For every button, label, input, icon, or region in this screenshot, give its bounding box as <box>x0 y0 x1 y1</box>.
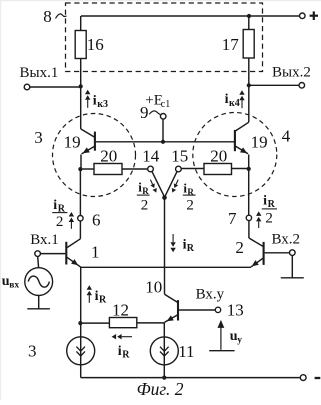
svg-text:с1: с1 <box>161 99 170 110</box>
resistor 20 right <box>204 164 232 175</box>
transistor 10 emitter <box>165 315 178 322</box>
wire Vkh.1 to AC source <box>37 256 40 268</box>
current arrow iR through R12 <box>122 336 132 338</box>
svg-text:R: R <box>99 294 107 305</box>
junction dot emitter 19 left / R20 left <box>78 167 82 171</box>
junction dot emitter 19 right / R20 right <box>247 167 251 171</box>
svg-text:вх: вх <box>9 280 19 290</box>
svg-text:i: i <box>95 289 99 304</box>
svg-text:Вых.2: Вых.2 <box>272 65 311 81</box>
junction dot R12 left <box>78 321 82 325</box>
node 6 terminal <box>78 216 83 221</box>
wire emitter19L to node 6 <box>79 169 81 216</box>
negative supply rail (bottom wire) <box>81 377 301 379</box>
terminal - (minus supply) <box>300 375 306 381</box>
base rail between transistors <box>96 141 235 143</box>
positive supply rail (top wire) <box>81 15 300 17</box>
svg-text:20: 20 <box>100 147 117 166</box>
resistor 17 <box>243 30 254 59</box>
transistor 2 base bar <box>263 242 265 265</box>
transistor 1 collector wire <box>67 239 80 248</box>
dashed block 8 boundary <box>66 3 263 72</box>
svg-text:2: 2 <box>56 214 64 230</box>
svg-text:7: 7 <box>228 209 237 228</box>
svg-text:2: 2 <box>141 197 149 213</box>
ground at Vkh.2 <box>291 255 293 277</box>
current source 3 <box>67 337 95 365</box>
label u_y with arrow <box>218 320 225 328</box>
svg-text:14: 14 <box>142 147 160 166</box>
transistor 19 left base bar <box>94 132 96 151</box>
svg-text:у: у <box>237 336 242 346</box>
node 15 terminal <box>176 166 182 172</box>
transistor 19 right base bar <box>234 130 236 151</box>
current arrow iR rising <box>88 295 90 303</box>
svg-text:13: 13 <box>227 301 244 320</box>
svg-text:2: 2 <box>235 238 244 257</box>
svg-text:2: 2 <box>186 197 194 213</box>
node 7 terminal <box>246 215 251 220</box>
svg-text:Вх.1: Вх.1 <box>30 232 59 248</box>
svg-text:19: 19 <box>64 133 81 152</box>
svg-text:i: i <box>263 194 267 209</box>
svg-text:1: 1 <box>91 243 100 262</box>
wire node14 to center junction <box>152 172 165 198</box>
svg-text:Вых.1: Вых.1 <box>20 65 59 81</box>
svg-text:Фиг. 2: Фиг. 2 <box>137 379 184 399</box>
svg-text:16: 16 <box>87 35 104 54</box>
current arrow iR/2 into V left <box>150 180 152 185</box>
current arrow i_k3 <box>87 100 89 108</box>
svg-text:3: 3 <box>34 128 43 147</box>
svg-text:i: i <box>118 344 122 359</box>
wire node 7 to transistor 2 <box>248 221 250 238</box>
svg-text:19: 19 <box>251 133 268 152</box>
dashed circle composite transistor 3 <box>53 114 136 197</box>
transistor 19 left collector wire <box>80 85 82 129</box>
wire node 6 to transistor 1 <box>79 221 81 239</box>
wire AC source to ground <box>38 296 40 309</box>
wire emitter 10 down <box>163 322 165 377</box>
junction dot node Vykh.1 <box>79 84 83 88</box>
transistor 19 right collector wire <box>248 85 250 122</box>
junction dot node Vykh.2 <box>247 83 251 87</box>
emitter rail <box>81 266 251 268</box>
transistor 2 emitter <box>251 258 263 267</box>
current source 11 <box>150 337 178 365</box>
node 14 terminal <box>148 166 154 172</box>
svg-text:8: 8 <box>43 7 52 26</box>
label iR/2 at node 7 <box>258 221 260 228</box>
svg-text:4: 4 <box>282 127 291 146</box>
svg-text:20: 20 <box>210 146 227 165</box>
current arrow iR/2 into V right <box>176 180 178 185</box>
transistor 1 emitter <box>67 257 81 267</box>
wire into current source 3 <box>80 323 82 378</box>
input transistor 2 collector wire <box>249 238 263 246</box>
svg-text:к4: к4 <box>229 98 240 109</box>
svg-text:i: i <box>93 93 97 108</box>
resistor 16 <box>75 31 86 59</box>
svg-text:2: 2 <box>265 211 273 227</box>
wire emitter19R to node 7 <box>248 169 250 215</box>
svg-text:i: i <box>225 92 229 107</box>
center wire iR <box>164 198 166 295</box>
node 9 wire and junction <box>161 140 165 144</box>
AC source u_vx <box>25 268 53 296</box>
svg-text:к3: к3 <box>97 99 108 110</box>
junction dot top-right above R17 <box>247 14 251 18</box>
svg-text:R: R <box>187 243 195 254</box>
svg-text:11: 11 <box>178 342 194 361</box>
svg-text:15: 15 <box>171 147 188 166</box>
transistor 19 right emitter <box>235 146 248 154</box>
svg-text:Вх.2: Вх.2 <box>272 231 301 247</box>
svg-text:R: R <box>142 186 149 196</box>
terminal + (plus supply) <box>300 13 306 19</box>
svg-text:3: 3 <box>28 342 37 361</box>
ground bar u_vx <box>27 308 50 310</box>
wire emitter node down <box>80 267 82 322</box>
svg-text:6: 6 <box>92 211 101 230</box>
svg-text:Вх.у: Вх.у <box>196 286 225 302</box>
junction dot bottom <box>162 376 166 380</box>
wire node15 to center junction <box>165 172 177 198</box>
current arrow iR center <box>172 234 174 242</box>
svg-text:9: 9 <box>140 103 149 122</box>
dashed circle composite transistor 4 <box>193 113 277 197</box>
transistor 10 collector wire <box>165 294 178 302</box>
transistor 19 left emitter <box>82 146 95 154</box>
svg-text:i: i <box>53 198 57 213</box>
resistor 12 <box>109 318 136 328</box>
terminal 9 (+Ec1 input) <box>160 114 166 120</box>
transistor 1 base bar <box>65 242 67 265</box>
svg-text:10: 10 <box>145 278 162 297</box>
svg-text:R: R <box>122 350 130 361</box>
svg-text:12: 12 <box>112 300 129 319</box>
svg-text:17: 17 <box>222 35 240 54</box>
junction dot center V <box>162 195 167 200</box>
transistor 10 base bar <box>177 300 179 320</box>
resistor 20 left <box>94 164 122 175</box>
